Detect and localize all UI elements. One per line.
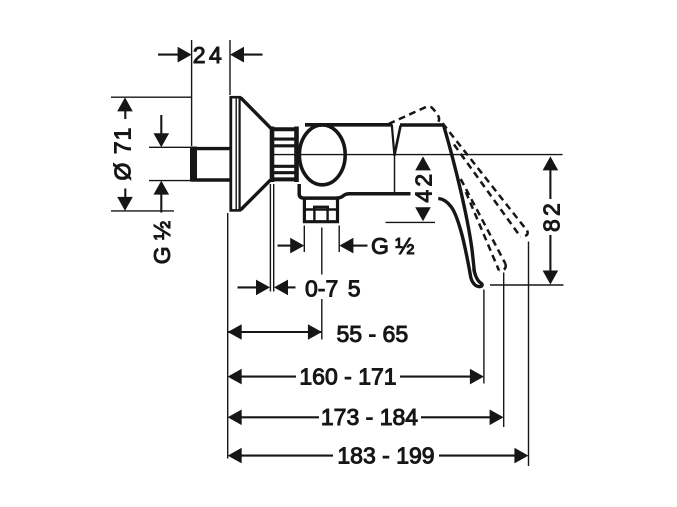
escutcheon wall plate: [230, 96, 242, 212]
dim 42: [415, 156, 431, 170]
svg-text:G ½: G ½: [149, 221, 175, 264]
left extension line (wall): [227, 213, 229, 459]
inlet nipple: [149, 147, 230, 182]
dim diameter 71 lines: [111, 96, 191, 98]
svg-text:0-75: 0-75: [305, 275, 361, 301]
dim 173-184: [241, 416, 319, 418]
handle dashed position 2 (mid): [461, 179, 506, 271]
outlet union nut: [303, 200, 339, 224]
svg-text:183 - 199: 183 - 199: [337, 443, 434, 469]
handle dashed position 1 (raised): [443, 123, 528, 236]
body outline: [299, 125, 410, 199]
handle lever solid: [438, 125, 482, 286]
dim G1/2 outlet: [278, 245, 291, 247]
svg-text:160 - 171: 160 - 171: [299, 364, 396, 390]
dim 55-65: [228, 331, 322, 333]
dim 24 arrows: [158, 54, 179, 56]
svg-text:173 - 184: 173 - 184: [321, 404, 418, 430]
svg-text:Ø 71: Ø 71: [110, 127, 136, 181]
centerline: [271, 154, 563, 156]
svg-text:82: 82: [539, 200, 565, 232]
dim 82: [543, 156, 559, 170]
outlet centerline extension: [321, 228, 323, 275]
dim 71 arrows: [117, 97, 133, 111]
svg-text:55 - 65: 55 - 65: [337, 321, 409, 347]
cartridge dome circle: [299, 125, 345, 185]
dim 160-171: [241, 376, 296, 378]
knurled collar: [271, 127, 299, 183]
dim 0-7.5 double extension lines: [269, 184, 271, 292]
handle dashed arc (swing path): [389, 106, 440, 124]
svg-text:24: 24: [193, 42, 225, 68]
svg-text:G ½: G ½: [371, 233, 414, 259]
dim 0-7.5 arrows: [238, 286, 258, 288]
dim G1/2 nipple arrows: [160, 115, 162, 134]
escutcheon cone: [241, 98, 271, 211]
dim 183-199: [241, 455, 333, 457]
svg-text:42: 42: [411, 171, 437, 203]
outlet G1/2 extension lines: [303, 226, 305, 253]
handle joint: [394, 125, 443, 156]
dim 24 extension lines: [191, 40, 193, 146]
